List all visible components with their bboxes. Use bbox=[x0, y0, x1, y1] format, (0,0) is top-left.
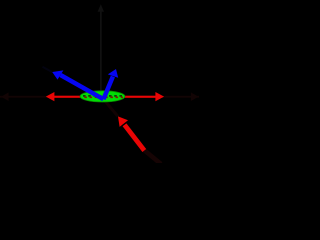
long blue arrowhead bbox=[52, 70, 63, 79]
faint extension beyond long reflected ray bbox=[43, 67, 53, 72]
short blue arrow shaft bbox=[103, 77, 113, 100]
faint right axis arrowhead bbox=[191, 92, 199, 101]
faint left axis arrowhead bbox=[1, 92, 9, 101]
long blue reflected-ray arrow shaft bbox=[61, 75, 104, 99]
red incident arrowhead bbox=[118, 116, 128, 127]
faint normal arrowhead bbox=[98, 4, 104, 12]
faint normal arrow shaft bbox=[100, 11, 102, 97]
red left arrowhead bbox=[46, 92, 55, 101]
red surface double-arrow shaft bbox=[51, 96, 159, 98]
faint hidden incident-ray segment (under surface) bbox=[105, 101, 119, 117]
hidden dashed dark line across ellipse bbox=[83, 95, 122, 97]
red incident-ray shaft bbox=[125, 125, 145, 151]
green surface ellipse bbox=[80, 91, 125, 102]
short blue arrowhead bbox=[108, 69, 118, 78]
faint incident-ray tail continuation bbox=[144, 150, 161, 164]
faint surface-plane axis line (full width) bbox=[0, 96, 199, 98]
hidden dashed dark-red line across ellipse bbox=[84, 96, 123, 98]
red right arrowhead bbox=[155, 92, 164, 101]
